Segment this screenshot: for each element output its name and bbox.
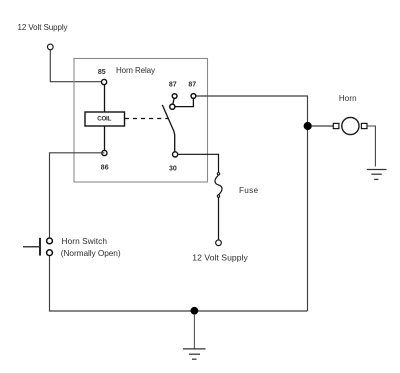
- svg-text:12 Volt Supply: 12 Volt Supply: [192, 252, 248, 262]
- relay box Horn Relay: [74, 59, 208, 183]
- horn switch contact top: [47, 238, 53, 244]
- horn switch contact bottom: [47, 250, 53, 256]
- svg-text:86: 86: [101, 165, 109, 172]
- terminal 12V supply bottom: [216, 240, 222, 246]
- svg-text:85: 85: [98, 69, 106, 76]
- wire supply to relay pin 85: [50, 50, 104, 82]
- wire 86 to horn switch: [50, 153, 105, 241]
- svg-text:Horn Switch: Horn Switch: [62, 236, 108, 246]
- svg-text:COIL: COIL: [97, 116, 111, 123]
- ground stem bottom: [193, 314, 195, 349]
- svg-text:Fuse: Fuse: [239, 186, 258, 195]
- terminal 30: [173, 152, 178, 157]
- fuse bottom terminal: [217, 195, 219, 197]
- wire junction to horn: [312, 125, 334, 127]
- svg-text:(Normally Open): (Normally Open): [61, 248, 121, 258]
- junction dot bottom: [191, 307, 199, 315]
- svg-text:Horn: Horn: [339, 94, 357, 103]
- wire fuse to supply: [218, 198, 220, 243]
- stub 87 left to stationary contact: [172, 96, 174, 107]
- ground bottom: [183, 349, 206, 359]
- junction dot horn branch: [304, 122, 312, 130]
- terminal 86: [102, 150, 107, 155]
- horn right lug: [361, 123, 367, 128]
- dashed actuation line coil to armature: [125, 118, 168, 120]
- wire 87 to right rail: [197, 96, 308, 311]
- wire 85 to coil: [104, 82, 106, 112]
- fuse top terminal: [217, 173, 219, 175]
- terminal 85: [102, 79, 107, 84]
- fuse element: [215, 175, 222, 195]
- wire coil to 86: [104, 126, 106, 153]
- horn left lug: [333, 123, 339, 128]
- coil box: [85, 112, 125, 126]
- svg-text:Horn Relay: Horn Relay: [116, 66, 155, 75]
- pushbutton stem: [23, 246, 39, 248]
- svg-text:12 Volt Supply: 12 Volt Supply: [18, 23, 68, 32]
- svg-text:87: 87: [188, 82, 196, 89]
- wire horn to ground: [367, 126, 375, 167]
- wire switch to bottom rail: [50, 256, 308, 311]
- svg-text:30: 30: [169, 165, 177, 172]
- horn body: [342, 117, 359, 134]
- armature arm: [162, 105, 174, 154]
- terminal 12V supply top: [47, 44, 53, 50]
- svg-text:87: 87: [169, 82, 177, 89]
- ground right: [367, 170, 387, 180]
- wire 30 to fuse: [175, 154, 218, 172]
- terminal 87 right: [191, 94, 196, 99]
- terminal 87 left: [172, 94, 177, 99]
- pushbutton actuator bar: [39, 238, 41, 256]
- wire stationary contact to 87 right: [172, 96, 193, 107]
- stationary contact: [170, 104, 175, 109]
